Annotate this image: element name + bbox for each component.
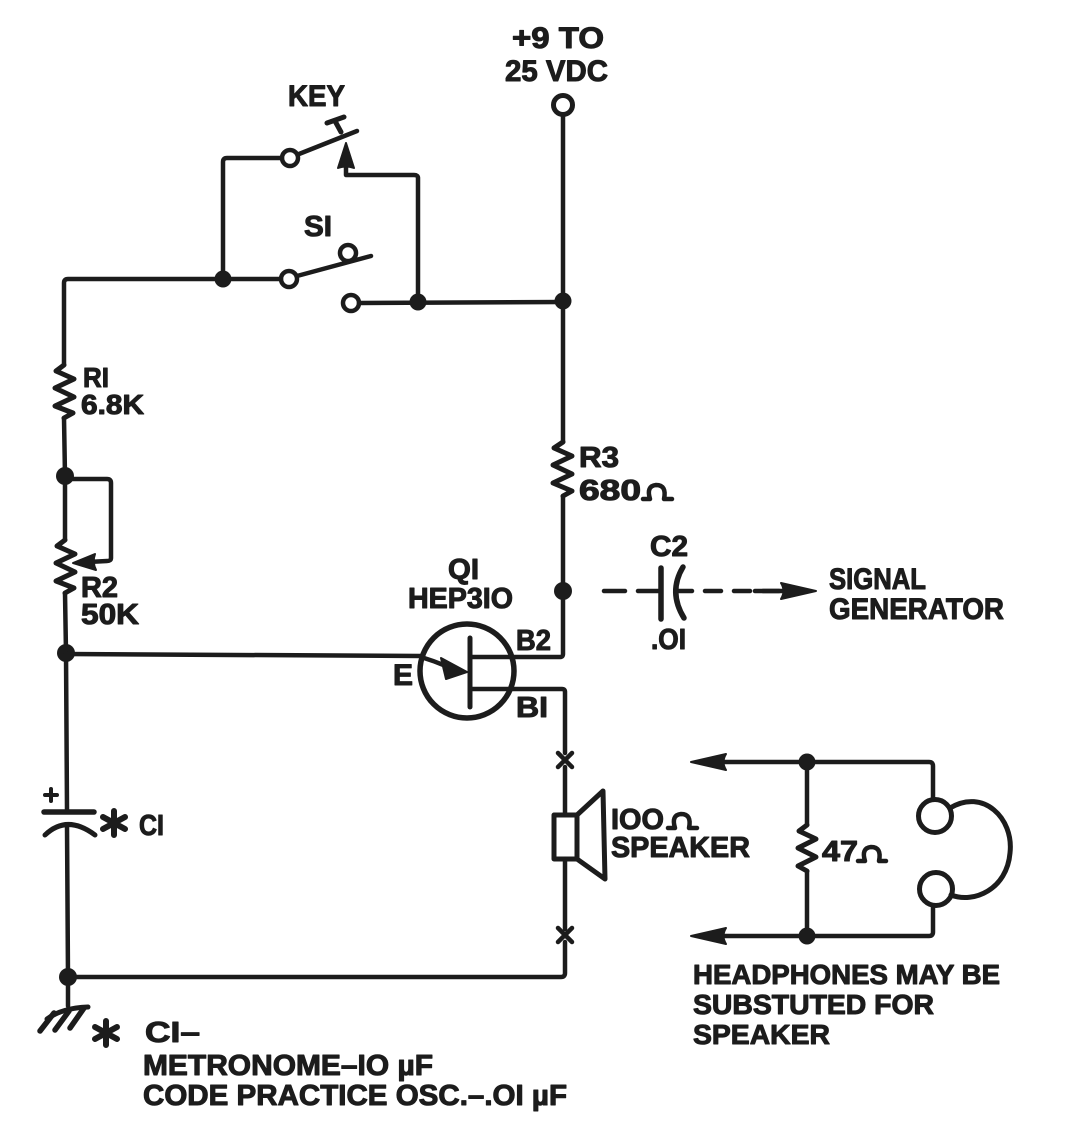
wire 47 bottom	[805, 871, 810, 936]
transistor Q1 circle	[420, 624, 514, 718]
wire R3 to node	[561, 496, 566, 591]
capacitor C1 plate top	[44, 809, 94, 815]
transistor Q1 emitter arrow	[421, 657, 446, 666]
svg-text:B2: B2	[516, 625, 551, 657]
resistor R3	[553, 442, 572, 496]
wire key arrow down right to S1 out	[346, 166, 418, 294]
node junction R2/E	[57, 644, 75, 662]
svg-text:+9 TO: +9 TO	[512, 22, 604, 55]
wire C1 to ground node	[67, 826, 68, 977]
label SIGNAL GENERATOR	[829, 563, 1004, 626]
node junction 47 top	[799, 754, 816, 771]
headphone arrow bottom	[691, 928, 726, 944]
node junction B2/C2	[554, 582, 572, 600]
wire S1 out to right rail	[359, 302, 563, 303]
wire emitter horizontal	[66, 654, 421, 656]
capacitor C2 plate flat	[658, 568, 664, 619]
speaker driver rect	[554, 815, 577, 859]
headphones earpiece top	[919, 800, 952, 833]
wire right rail to R3	[561, 301, 566, 442]
speaker horn	[577, 791, 605, 879]
svg-text:GENERATOR: GENERATOR	[829, 593, 1004, 626]
wire dashed C2 to arrow	[676, 589, 780, 594]
label ohm R3	[643, 485, 672, 499]
label ohm speaker	[668, 814, 697, 828]
wire B2	[470, 591, 563, 657]
asterisk note	[95, 1021, 117, 1045]
arrow to signal generator	[781, 583, 816, 599]
svg-text:SPEAKER: SPEAKER	[611, 832, 750, 864]
wire dashed to C2	[604, 589, 660, 594]
X mark lower speaker lead	[558, 928, 572, 942]
label Q1 HEP310	[408, 554, 513, 615]
label 100 ohm SPEAKER	[611, 804, 750, 864]
wire R1 to node	[64, 418, 65, 476]
asterisk C1	[103, 811, 125, 835]
potentiometer R2 bypass arm	[65, 479, 111, 562]
wire bottom return	[68, 942, 565, 977]
key lever	[299, 131, 357, 154]
node junction right rail top	[555, 293, 572, 310]
svg-text:6.8K: 6.8K	[81, 389, 144, 420]
node junction R1/R2	[56, 467, 74, 485]
key KEY terminal circle	[282, 150, 298, 166]
switch S1 pole circle	[281, 271, 297, 287]
switch S1 upper contact circle	[340, 245, 356, 261]
svg-text:R3: R3	[579, 442, 619, 474]
svg-text:SUBSTUTED FOR: SUBSTUTED FOR	[693, 989, 934, 1020]
label +9 TO 25 VDC	[505, 22, 608, 88]
node junction 47 bottom	[799, 928, 816, 945]
svg-text:CI–: CI–	[145, 1017, 200, 1049]
resistor R1	[55, 365, 74, 418]
svg-text:E: E	[393, 659, 413, 692]
wire key left to junction	[223, 158, 282, 271]
svg-text:METRONOME–IO µF: METRONOME–IO µF	[143, 1050, 433, 1082]
wire rail to C1	[66, 653, 67, 810]
transistor Q1 base bar	[468, 638, 473, 707]
svg-text:47: 47	[822, 836, 858, 868]
headphones band	[950, 802, 1010, 898]
svg-text:CI: CI	[139, 810, 164, 842]
svg-text:BI: BI	[516, 692, 548, 724]
svg-text:.OI: .OI	[651, 624, 686, 656]
X mark upper speaker lead	[558, 753, 572, 767]
svg-text:680: 680	[579, 475, 641, 507]
node junction key/left	[215, 271, 232, 288]
resistor R2	[56, 540, 75, 593]
svg-text:SIGNAL: SIGNAL	[829, 563, 926, 596]
wire 47 top	[805, 762, 810, 825]
capacitor C2 plate curved	[676, 567, 684, 618]
wire B1	[470, 689, 565, 753]
svg-text:C2: C2	[650, 531, 688, 563]
resistor 47 ohm	[798, 825, 816, 871]
svg-text:QI: QI	[448, 554, 479, 586]
wire B1 to speaker	[563, 767, 568, 815]
capacitor C1 plus sign	[45, 789, 57, 801]
svg-text:SI: SI	[304, 211, 332, 243]
node junction ground	[59, 968, 77, 986]
wire R2 to node	[65, 593, 66, 653]
svg-text:HEADPHONES MAY BE: HEADPHONES MAY BE	[693, 959, 1000, 990]
label HEADPHONES MAY BE	[693, 959, 1000, 1050]
wire node to R2	[63, 476, 68, 540]
svg-text:50K: 50K	[81, 599, 139, 631]
potentiometer R2 wiper arrowhead	[73, 554, 96, 570]
headphone arrow top	[691, 754, 726, 770]
svg-text:KEY: KEY	[288, 80, 345, 113]
label C1 note	[143, 1017, 567, 1112]
svg-text:CODE PRACTICE OSC.–.OI µF: CODE PRACTICE OSC.–.OI µF	[143, 1080, 567, 1112]
capacitor C1 plate curved	[45, 825, 95, 836]
key knob	[327, 117, 344, 132]
wire power rail down	[561, 115, 566, 299]
wire left top horizontal	[64, 279, 281, 365]
key contact arrow	[338, 143, 354, 168]
svg-text:HEP3IO: HEP3IO	[408, 583, 513, 615]
node junction key branch	[410, 294, 427, 311]
svg-text:SPEAKER: SPEAKER	[693, 1019, 830, 1050]
ground	[66, 977, 71, 1006]
headphones earpiece bottom	[920, 873, 953, 906]
svg-text:25 VDC: 25 VDC	[505, 55, 608, 88]
wire speaker down	[563, 859, 568, 929]
switch S1 lower contact circle	[343, 295, 359, 311]
switch S1 lever	[297, 256, 371, 276]
power terminal circle	[554, 96, 573, 115]
